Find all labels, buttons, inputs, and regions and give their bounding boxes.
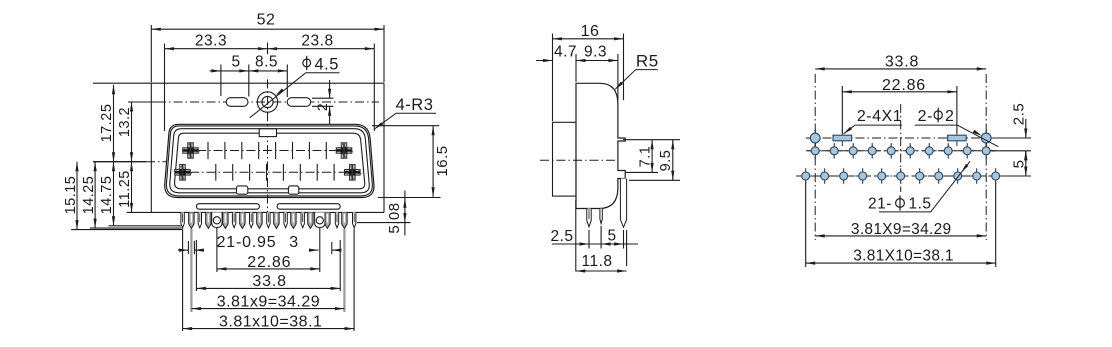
svg-text:15.15: 15.15 (63, 176, 79, 215)
svg-text:16: 16 (581, 23, 600, 40)
svg-text:13.2: 13.2 (117, 107, 133, 137)
svg-text:16.5: 16.5 (434, 145, 451, 176)
svg-text:22.86: 22.86 (882, 77, 926, 94)
svg-text:17.25: 17.25 (99, 104, 115, 143)
svg-text:2-: 2- (918, 108, 933, 125)
svg-text:4.7: 4.7 (554, 43, 577, 60)
svg-text:2: 2 (945, 108, 954, 125)
svg-text:5: 5 (607, 228, 616, 245)
svg-text:4.5: 4.5 (315, 55, 339, 73)
svg-text:8.5: 8.5 (255, 54, 278, 71)
svg-text:21-0.95: 21-0.95 (217, 234, 277, 251)
svg-text:R5: R5 (636, 51, 659, 70)
svg-text:2-4X1: 2-4X1 (857, 108, 902, 125)
svg-text:23.8: 23.8 (301, 33, 333, 50)
svg-text:9.5: 9.5 (658, 150, 674, 172)
svg-text:2.5: 2.5 (1011, 103, 1028, 125)
svg-text:23.3: 23.3 (195, 33, 227, 50)
svg-text:3.81X9=34.29: 3.81X9=34.29 (851, 221, 952, 238)
svg-text:52: 52 (257, 12, 276, 29)
svg-text:5.08: 5.08 (386, 202, 403, 233)
svg-text:11.8: 11.8 (581, 253, 612, 270)
svg-text:3.81X10=38.1: 3.81X10=38.1 (853, 247, 954, 264)
svg-text:2: 2 (314, 103, 330, 111)
svg-text:33.8: 33.8 (885, 54, 919, 71)
svg-text:7.1: 7.1 (638, 146, 654, 168)
svg-text:21-: 21- (868, 196, 892, 213)
svg-text:3.81x10=38.1: 3.81x10=38.1 (219, 313, 322, 330)
svg-text:5: 5 (231, 54, 240, 71)
svg-text:11.25: 11.25 (117, 170, 133, 208)
svg-text:4-R3: 4-R3 (396, 96, 434, 114)
svg-text:5: 5 (1011, 160, 1028, 169)
svg-text:22.86: 22.86 (247, 254, 291, 271)
svg-text:33.8: 33.8 (252, 273, 286, 290)
svg-text:14.25: 14.25 (81, 176, 97, 215)
svg-text:3: 3 (289, 234, 298, 251)
svg-text:14.75: 14.75 (99, 176, 115, 215)
svg-text:9.3: 9.3 (584, 43, 607, 60)
svg-text:2.5: 2.5 (550, 228, 573, 245)
svg-text:1.5: 1.5 (908, 196, 931, 213)
svg-text:3.81x9=34.29: 3.81x9=34.29 (217, 293, 320, 310)
